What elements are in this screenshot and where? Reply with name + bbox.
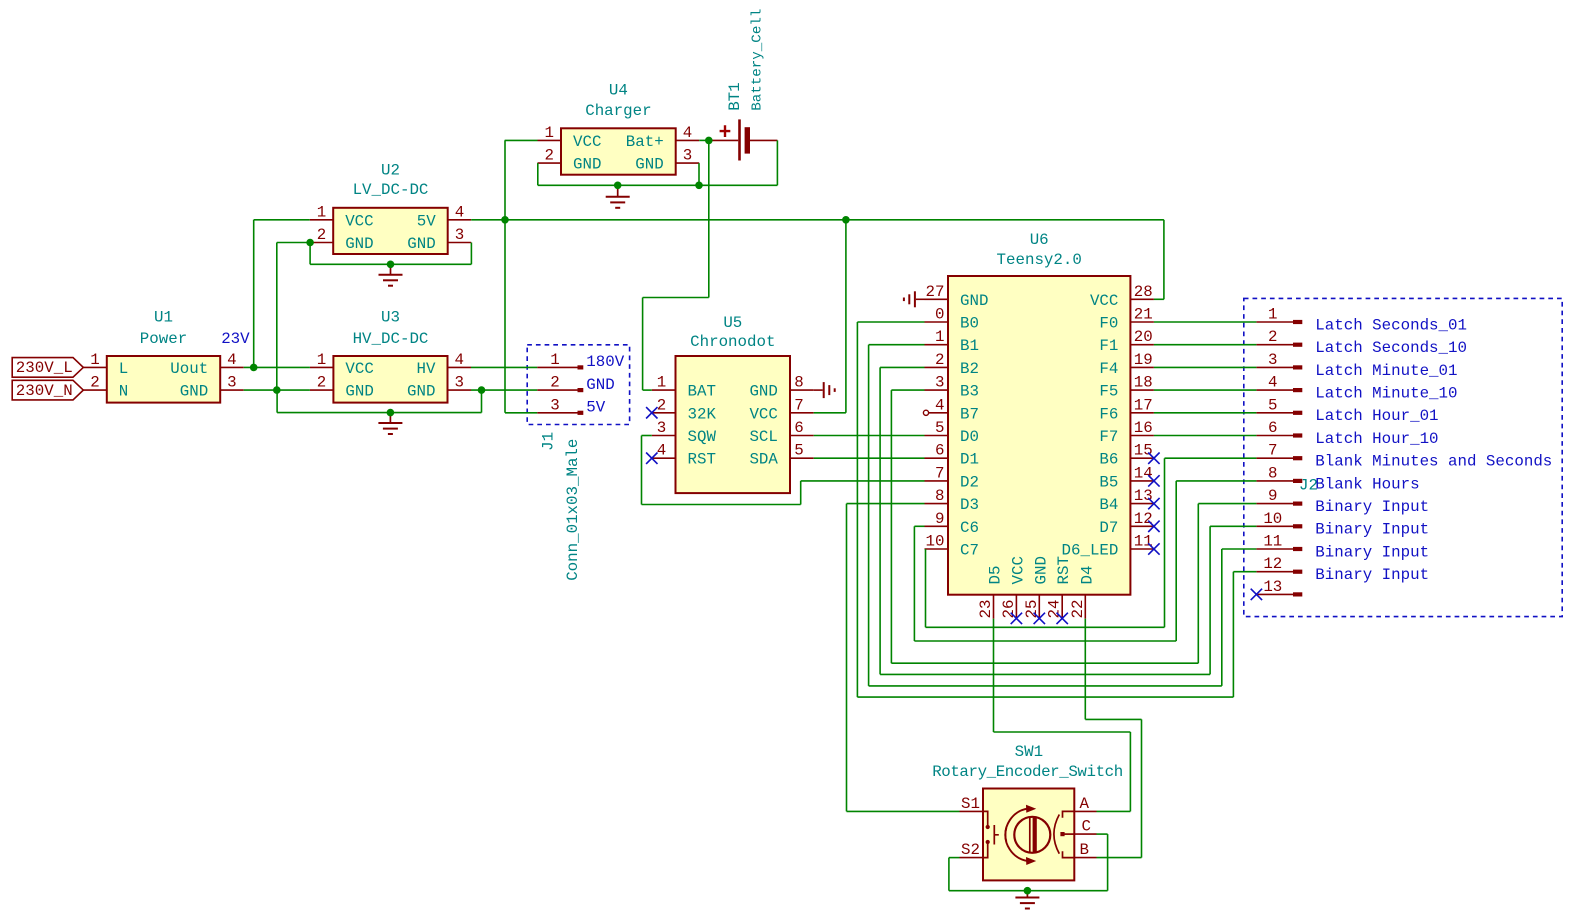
svg-text:Uout: Uout bbox=[170, 360, 208, 378]
U6 pin 6 D1 stub bbox=[925, 457, 949, 459]
wire 5V drop to U5 VCC bbox=[845, 220, 847, 413]
U6 pin 18 F5 stub bbox=[1130, 389, 1154, 391]
svg-text:3: 3 bbox=[935, 374, 944, 392]
svg-text:S1: S1 bbox=[961, 795, 980, 813]
svg-text:HV: HV bbox=[417, 360, 436, 378]
svg-text:GND: GND bbox=[635, 156, 663, 174]
wire U4 ground rail bbox=[538, 184, 778, 186]
no-connect X on U6 right pin row 8 bbox=[1148, 498, 1159, 509]
U5 pin 3 SQW stub bbox=[652, 435, 676, 437]
svg-text:32K: 32K bbox=[688, 405, 717, 423]
svg-text:1: 1 bbox=[935, 328, 944, 346]
svg-text:VCC: VCC bbox=[573, 133, 601, 151]
svg-text:13: 13 bbox=[1263, 578, 1282, 596]
svg-text:GND: GND bbox=[407, 383, 435, 401]
J2 pin 11 stub bbox=[1256, 548, 1293, 550]
svg-text:D3: D3 bbox=[960, 496, 979, 514]
wire nest B0 to J2 pin12 bottom bbox=[857, 696, 1233, 698]
wire nest C7 to J2 pin7 bottom bbox=[926, 626, 1165, 628]
svg-text:D2: D2 bbox=[960, 473, 979, 491]
svg-text:1: 1 bbox=[90, 351, 99, 369]
wire J2 pin7 column bbox=[1164, 458, 1166, 627]
BT1 left plate long bbox=[738, 119, 741, 160]
wire GND vertical U2 to U1 row bbox=[276, 243, 278, 391]
SW1 wiper arc bbox=[1054, 815, 1059, 854]
component SW1 Rotary_Encoder_Switch box bbox=[983, 789, 1074, 881]
ground symbol under U2 bbox=[390, 264, 392, 274]
svg-text:7: 7 bbox=[794, 396, 803, 414]
wire SQW drop bbox=[641, 436, 643, 505]
J1 pin 3 stub bbox=[537, 412, 577, 414]
U6 pin 3 B3 stub bbox=[925, 389, 949, 391]
wire U3 pin4 to J1 pin1 180V bbox=[471, 366, 537, 368]
no-connect X on U6 pin 25 bbox=[1034, 613, 1045, 624]
svg-text:Conn_01x03_Male: Conn_01x03_Male bbox=[564, 439, 582, 581]
U4 pin 2 GND stub bbox=[538, 162, 562, 164]
svg-text:GND: GND bbox=[573, 156, 601, 174]
svg-text:4: 4 bbox=[1268, 374, 1277, 392]
wire 5V drop to J1 pin3 bbox=[504, 140, 506, 412]
wire C6 column bbox=[913, 526, 915, 641]
component U6 Teensy2.0 box bbox=[948, 276, 1130, 595]
svg-text:21: 21 bbox=[1134, 306, 1153, 324]
svg-text:12: 12 bbox=[1134, 510, 1153, 528]
U3 pin 4 HV stub bbox=[448, 366, 472, 368]
wire D5 column bbox=[993, 619, 995, 732]
svg-text:RST: RST bbox=[688, 451, 716, 469]
svg-text:BT1: BT1 bbox=[726, 82, 744, 110]
svg-text:6: 6 bbox=[935, 442, 944, 460]
svg-text:23V: 23V bbox=[221, 330, 250, 348]
wire U6 F5 to J2 pin4 bbox=[1154, 389, 1257, 391]
wire battery to U5 BAT horizontal bbox=[643, 297, 709, 299]
no-connect X on U6 right pin row 7 bbox=[1148, 475, 1159, 486]
wire to J2 pin8 bbox=[1176, 480, 1256, 482]
svg-text:Battery_Cell: Battery_Cell bbox=[750, 9, 766, 111]
J2 pin 8 stub bbox=[1256, 480, 1293, 482]
wire U6 B3 left bbox=[891, 389, 924, 391]
ground symbol under U4 bbox=[617, 185, 619, 197]
svg-text:U4: U4 bbox=[609, 82, 628, 100]
svg-text:Bat+: Bat+ bbox=[626, 133, 664, 151]
SW1 pin B stub bbox=[1074, 857, 1096, 859]
svg-text:Latch Seconds_10: Latch Seconds_10 bbox=[1315, 339, 1467, 357]
wire C7 column bbox=[925, 549, 927, 627]
svg-text:B6: B6 bbox=[1099, 451, 1118, 469]
U6 pin 1 B1 stub bbox=[925, 344, 949, 346]
wire U5 SQW left bbox=[642, 435, 652, 437]
svg-text:C7: C7 bbox=[960, 542, 979, 560]
svg-text:2: 2 bbox=[1268, 328, 1277, 346]
U6 pin 11 D6_LED stub bbox=[1130, 548, 1154, 550]
svg-text:F6: F6 bbox=[1099, 405, 1118, 423]
svg-text:VCC: VCC bbox=[345, 212, 373, 230]
svg-text:Latch Minute_01: Latch Minute_01 bbox=[1315, 362, 1457, 380]
junction U2 ground symbol bbox=[387, 261, 395, 269]
SW1 contact C with square bbox=[1063, 833, 1074, 835]
wire nest B2 to J2 pin10 bottom bbox=[880, 673, 1210, 675]
svg-text:B0: B0 bbox=[960, 315, 979, 333]
wire J2 pin12 column bbox=[1232, 572, 1234, 697]
svg-text:GND: GND bbox=[960, 292, 988, 310]
U2 pin 2 GND stub bbox=[310, 242, 334, 244]
wire U6 F1 to J2 pin2 bbox=[1154, 344, 1257, 346]
svg-text:22: 22 bbox=[1069, 600, 1087, 619]
wire B3 column bbox=[890, 390, 892, 663]
svg-text:Teensy2.0: Teensy2.0 bbox=[997, 251, 1082, 269]
svg-text:SDA: SDA bbox=[749, 451, 778, 469]
J2 pin 7 stub bbox=[1256, 457, 1293, 459]
svg-text:L: L bbox=[119, 360, 128, 378]
svg-text:10: 10 bbox=[1263, 510, 1282, 528]
wire U4 pin2 gnd drop bbox=[537, 163, 539, 185]
svg-text:D7: D7 bbox=[1099, 519, 1118, 537]
svg-text:Binary Input: Binary Input bbox=[1315, 566, 1429, 584]
svg-text:SW1: SW1 bbox=[1015, 743, 1043, 761]
svg-text:VCC: VCC bbox=[1090, 292, 1118, 310]
U5 pin 2 32K stub bbox=[652, 412, 676, 414]
wire to J2 pin12 bbox=[1233, 571, 1256, 573]
wire battery route down to U5 BAT bbox=[642, 298, 644, 391]
SW1 contact bracket A bbox=[1063, 811, 1075, 817]
ground symbol at U6 pin 27 bbox=[916, 298, 925, 300]
component U5 Chronodot box bbox=[676, 356, 791, 493]
wire 5V drop to U6 VCC bbox=[1163, 220, 1165, 299]
wire B1 column bbox=[868, 345, 870, 686]
wire SW1 ground rail bbox=[949, 890, 1108, 892]
svg-text:Latch Hour_10: Latch Hour_10 bbox=[1315, 430, 1438, 448]
SW1 rotation arc upper with arrowhead bbox=[1005, 809, 1028, 842]
SW1 push switch contact from S1 bbox=[983, 811, 988, 825]
svg-text:F1: F1 bbox=[1099, 337, 1118, 355]
wire U6 D3 left bbox=[847, 503, 925, 505]
svg-text:U6: U6 bbox=[1030, 231, 1049, 249]
wire battery plus drop bbox=[708, 140, 710, 297]
U4 pin 3 GND stub bbox=[676, 162, 700, 164]
svg-text:D4: D4 bbox=[1078, 566, 1096, 585]
svg-text:N: N bbox=[119, 383, 128, 401]
svg-text:U1: U1 bbox=[154, 308, 173, 326]
net label 230V_L pentagon bbox=[12, 358, 83, 378]
U6 pin 23 D5 bottom stub bbox=[993, 595, 995, 619]
svg-text:B: B bbox=[1080, 841, 1089, 859]
wire U1 pin3 to U3 pin2 GND bbox=[244, 389, 310, 391]
svg-text:3: 3 bbox=[683, 147, 692, 165]
BT1 left pin stub bbox=[709, 139, 738, 141]
junction U4 ground symbol bbox=[614, 182, 622, 190]
svg-text:20: 20 bbox=[1134, 328, 1153, 346]
svg-text:2: 2 bbox=[935, 351, 944, 369]
svg-text:3: 3 bbox=[455, 226, 464, 244]
junction U3 pin3 row bbox=[478, 386, 486, 394]
svg-text:B5: B5 bbox=[1099, 473, 1118, 491]
svg-text:Binary Input: Binary Input bbox=[1315, 543, 1429, 561]
svg-text:27: 27 bbox=[926, 283, 945, 301]
wire U5 SCL to U6 D0 bbox=[814, 435, 925, 437]
svg-text:GND: GND bbox=[586, 376, 614, 394]
junction battery plus bbox=[705, 137, 713, 145]
svg-text:4: 4 bbox=[657, 442, 666, 460]
SW1 push switch actuator bbox=[994, 825, 999, 845]
ground symbol at U5 pin 8 bbox=[814, 389, 823, 391]
U5 pin 6 SCL stub bbox=[790, 435, 814, 437]
no-connect X on J2 pin 13 bbox=[1251, 589, 1262, 600]
wire U6 F7 to J2 pin6 bbox=[1154, 435, 1257, 437]
svg-text:180V: 180V bbox=[586, 353, 624, 371]
U6 pin 0 B0 stub bbox=[925, 321, 949, 323]
U5 pin 4 RST stub bbox=[652, 457, 676, 459]
connector J2 dashed outline bbox=[1244, 298, 1562, 616]
svg-text:11: 11 bbox=[1134, 533, 1153, 551]
wire SW1 C right bbox=[1097, 833, 1108, 835]
svg-text:8: 8 bbox=[935, 487, 944, 505]
wire to J1 pin3 5V bbox=[505, 412, 537, 414]
svg-text:SCL: SCL bbox=[749, 428, 777, 446]
svg-text:6: 6 bbox=[1268, 419, 1277, 437]
wire to J2 pin7 bbox=[1165, 457, 1257, 459]
U2 pin 4 5V stub bbox=[448, 219, 472, 221]
svg-text:14: 14 bbox=[1134, 464, 1153, 482]
wire 23V vertical U1 to U2 bbox=[253, 220, 255, 368]
wire SW1 B right bbox=[1097, 857, 1142, 859]
svg-text:1: 1 bbox=[317, 203, 326, 221]
J2 pin 13 stub bbox=[1256, 593, 1293, 595]
BT1 plus sign bbox=[720, 125, 731, 137]
wire U3 gnd rail right riser bbox=[481, 390, 483, 413]
svg-text:3: 3 bbox=[657, 419, 666, 437]
junction SW1 ground bbox=[1024, 887, 1032, 895]
svg-text:C6: C6 bbox=[960, 519, 979, 537]
svg-text:13: 13 bbox=[1134, 487, 1153, 505]
svg-text:J1: J1 bbox=[540, 432, 558, 451]
svg-text:4: 4 bbox=[683, 124, 692, 142]
svg-text:7: 7 bbox=[935, 464, 944, 482]
junction 5V rail at x505 bbox=[501, 216, 509, 224]
svg-text:28: 28 bbox=[1134, 283, 1153, 301]
svg-text:24: 24 bbox=[1046, 600, 1064, 619]
J2 pin 6 stub bbox=[1256, 435, 1293, 437]
junction U4 pin3 gnd bbox=[695, 182, 703, 190]
svg-text:11: 11 bbox=[1263, 533, 1282, 551]
svg-text:8: 8 bbox=[794, 374, 803, 392]
J2 pin 2 stub bbox=[1256, 344, 1293, 346]
component U4 Charger box bbox=[561, 128, 676, 174]
svg-text:Power: Power bbox=[140, 330, 187, 348]
SW1 wheel thick bar bbox=[1033, 818, 1037, 852]
svg-text:Latch Hour_01: Latch Hour_01 bbox=[1315, 407, 1438, 425]
svg-text:10: 10 bbox=[926, 533, 945, 551]
U6 pin 28 VCC stub bbox=[1130, 298, 1154, 300]
svg-text:4: 4 bbox=[227, 351, 236, 369]
no-connect X on U6 right pin row 6 bbox=[1148, 453, 1159, 464]
wire D5 to SW1 A horizontal bbox=[994, 731, 1131, 733]
wire 5V rail bbox=[471, 219, 1164, 221]
no-connect X on U6 right pin row 10 bbox=[1148, 543, 1159, 554]
svg-text:12: 12 bbox=[1263, 555, 1282, 573]
svg-text:1: 1 bbox=[317, 351, 326, 369]
svg-text:B2: B2 bbox=[960, 360, 979, 378]
svg-text:B4: B4 bbox=[1099, 496, 1118, 514]
wire to J2 pin9 bbox=[1198, 503, 1256, 505]
wire SW1 B column bbox=[1141, 719, 1143, 857]
svg-text:F5: F5 bbox=[1099, 383, 1118, 401]
U4 pin 1 VCC stub bbox=[538, 139, 562, 141]
svg-text:8: 8 bbox=[1268, 464, 1277, 482]
svg-text:A: A bbox=[1080, 795, 1090, 813]
no-connect X on U6 pin 24 bbox=[1057, 613, 1068, 624]
J2 pin 10 stub bbox=[1256, 525, 1293, 527]
no-connect X on U5 pin 2 bbox=[646, 407, 657, 418]
svg-text:2: 2 bbox=[657, 396, 666, 414]
svg-text:1: 1 bbox=[545, 124, 554, 142]
J2 pin 3 stub bbox=[1256, 366, 1293, 368]
U3 pin 2 GND stub bbox=[310, 389, 334, 391]
wire to J2 pin11 bbox=[1222, 548, 1257, 550]
wire U4 pin1 VCC bbox=[505, 139, 538, 141]
U6 pin 17 F6 stub bbox=[1130, 412, 1154, 414]
svg-text:5: 5 bbox=[935, 419, 944, 437]
svg-text:F7: F7 bbox=[1099, 428, 1118, 446]
U6 pin 21 F0 stub bbox=[1130, 321, 1154, 323]
wire U2 pin1 VCC bbox=[254, 219, 310, 221]
svg-text:2: 2 bbox=[317, 226, 326, 244]
svg-text:GND: GND bbox=[1032, 556, 1050, 584]
svg-text:2: 2 bbox=[545, 147, 554, 165]
U3 pin 1 VCC stub bbox=[310, 366, 334, 368]
svg-text:5V: 5V bbox=[586, 399, 605, 417]
svg-text:19: 19 bbox=[1134, 351, 1153, 369]
svg-text:BAT: BAT bbox=[688, 383, 716, 401]
svg-text:GND: GND bbox=[345, 235, 373, 253]
svg-text:Latch Minute_10: Latch Minute_10 bbox=[1315, 385, 1457, 403]
SW1 pin A stub bbox=[1074, 810, 1096, 812]
wire J2 pin9 column bbox=[1197, 504, 1199, 664]
wire U4 pin4 to battery plus bbox=[699, 139, 709, 141]
U6 pin 7 D2 stub bbox=[925, 480, 949, 482]
no-connect X on U6 right pin row 9 bbox=[1148, 521, 1159, 532]
U6 pin 20 F1 stub bbox=[1130, 344, 1154, 346]
U6 pin 4 B7 stub bbox=[929, 412, 948, 414]
U6 pin 14 B5 stub bbox=[1130, 480, 1154, 482]
svg-text:18: 18 bbox=[1134, 374, 1153, 392]
svg-text:3: 3 bbox=[455, 374, 464, 392]
svg-text:Binary Input: Binary Input bbox=[1315, 498, 1429, 516]
junction 5V rail at x846 bbox=[842, 216, 850, 224]
U6 pin 26 VCC bottom stub bbox=[1015, 595, 1017, 619]
svg-text:1: 1 bbox=[550, 351, 559, 369]
wire U5 SDA to U6 D1 bbox=[814, 457, 925, 459]
wire U2 pin3 drop bbox=[470, 243, 472, 265]
U6 pin 12 D7 stub bbox=[1130, 525, 1154, 527]
SW1 encoder wheel circle bbox=[1014, 817, 1050, 853]
wire SQW to U6 D2 bbox=[801, 480, 925, 482]
svg-text:D0: D0 bbox=[960, 428, 979, 446]
wire J2 pin8 column bbox=[1175, 481, 1177, 641]
svg-text:GND: GND bbox=[345, 383, 373, 401]
svg-text:B1: B1 bbox=[960, 337, 979, 355]
wire U2 ground loop rail bbox=[310, 263, 471, 265]
svg-text:VCC: VCC bbox=[1009, 556, 1027, 584]
svg-text:SQW: SQW bbox=[688, 428, 717, 446]
wire U4 pin3 gnd drop bbox=[698, 163, 700, 185]
wire SQW under-box rail bbox=[642, 504, 801, 506]
svg-text:C: C bbox=[1082, 818, 1091, 836]
svg-text:26: 26 bbox=[1000, 600, 1018, 619]
wire SQW riser to D2 bbox=[800, 481, 802, 505]
U6 pin 15 B6 stub bbox=[1130, 457, 1154, 459]
svg-text:2: 2 bbox=[550, 374, 559, 392]
wire SW1 C column bbox=[1107, 834, 1109, 891]
wire SW1 S2 column bbox=[948, 858, 950, 891]
ground symbol under SW1 bbox=[1026, 891, 1028, 898]
wire into U5 pin1 bbox=[643, 389, 652, 391]
svg-text:9: 9 bbox=[935, 510, 944, 528]
component U2 LV_DC-DC box bbox=[333, 208, 448, 254]
wire U2 pin2 drop bbox=[309, 243, 311, 265]
U6 pin 24 RST bottom stub bbox=[1061, 595, 1063, 619]
svg-text:LV_DC-DC: LV_DC-DC bbox=[353, 181, 429, 199]
wire U3 ground rail bbox=[277, 412, 481, 414]
U6 pin 2 B2 stub bbox=[925, 366, 949, 368]
svg-text:1: 1 bbox=[1268, 306, 1277, 324]
U6 pin 10 C7 stub bbox=[925, 548, 949, 550]
svg-text:U3: U3 bbox=[381, 308, 400, 326]
U6 pin 19 F4 stub bbox=[1130, 366, 1154, 368]
U6 pin 25 GND bottom stub bbox=[1038, 595, 1040, 619]
J2 pin 5 stub bbox=[1256, 412, 1293, 414]
U5 pin 7 VCC stub bbox=[790, 412, 814, 414]
svg-text:RST: RST bbox=[1055, 556, 1073, 584]
SW1 wheel thin bar bbox=[1029, 818, 1031, 852]
U1 pin 3 GND stub bbox=[220, 389, 244, 391]
wire U2 pin2 GND left bbox=[277, 242, 310, 244]
U6 pin 8 D3 stub bbox=[925, 503, 949, 505]
svg-text:GND: GND bbox=[407, 235, 435, 253]
svg-text:S2: S2 bbox=[961, 841, 980, 859]
svg-text:B3: B3 bbox=[960, 383, 979, 401]
wire D4 to SW1 B horizontal bbox=[1085, 718, 1141, 720]
wire U6 B2 left bbox=[880, 366, 924, 368]
U6 pin 5 D0 stub bbox=[925, 435, 949, 437]
svg-text:9: 9 bbox=[1268, 487, 1277, 505]
svg-text:3: 3 bbox=[227, 374, 236, 392]
U2 pin 3 GND stub bbox=[448, 242, 472, 244]
component U3 HV_DC-DC box bbox=[333, 356, 447, 403]
svg-text:Charger: Charger bbox=[585, 102, 651, 120]
svg-text:3: 3 bbox=[1268, 351, 1277, 369]
svg-text:Binary Input: Binary Input bbox=[1315, 521, 1429, 539]
wire battery minus drop bbox=[776, 140, 778, 185]
svg-text:VCC: VCC bbox=[749, 405, 777, 423]
svg-text:U2: U2 bbox=[381, 161, 400, 179]
wire U6 VCC pin28 bbox=[1154, 298, 1164, 300]
wire U3 gnd rail left riser bbox=[276, 390, 278, 413]
U1 pin 1 L stub bbox=[83, 366, 107, 368]
J2 pin 12 stub bbox=[1256, 571, 1293, 573]
wire nest B1 to J2 pin11 bottom bbox=[869, 685, 1222, 687]
wire U3 pin3 to J1 pin2 GND bbox=[471, 389, 537, 391]
BT1 right pin stub bbox=[750, 139, 777, 141]
wire SW1 S2 left bbox=[949, 857, 960, 859]
svg-text:3: 3 bbox=[550, 396, 559, 414]
U1 pin 2 N stub bbox=[83, 389, 107, 391]
svg-text:Latch Seconds_01: Latch Seconds_01 bbox=[1315, 316, 1467, 334]
no-connect X on U6 pin 26 bbox=[1011, 613, 1022, 624]
ground symbol under U3 bbox=[389, 413, 391, 423]
wire U6 B0 left bbox=[857, 321, 924, 323]
svg-text:D5: D5 bbox=[987, 566, 1005, 585]
wire nest C6 to J2 pin8 bottom bbox=[914, 640, 1176, 642]
